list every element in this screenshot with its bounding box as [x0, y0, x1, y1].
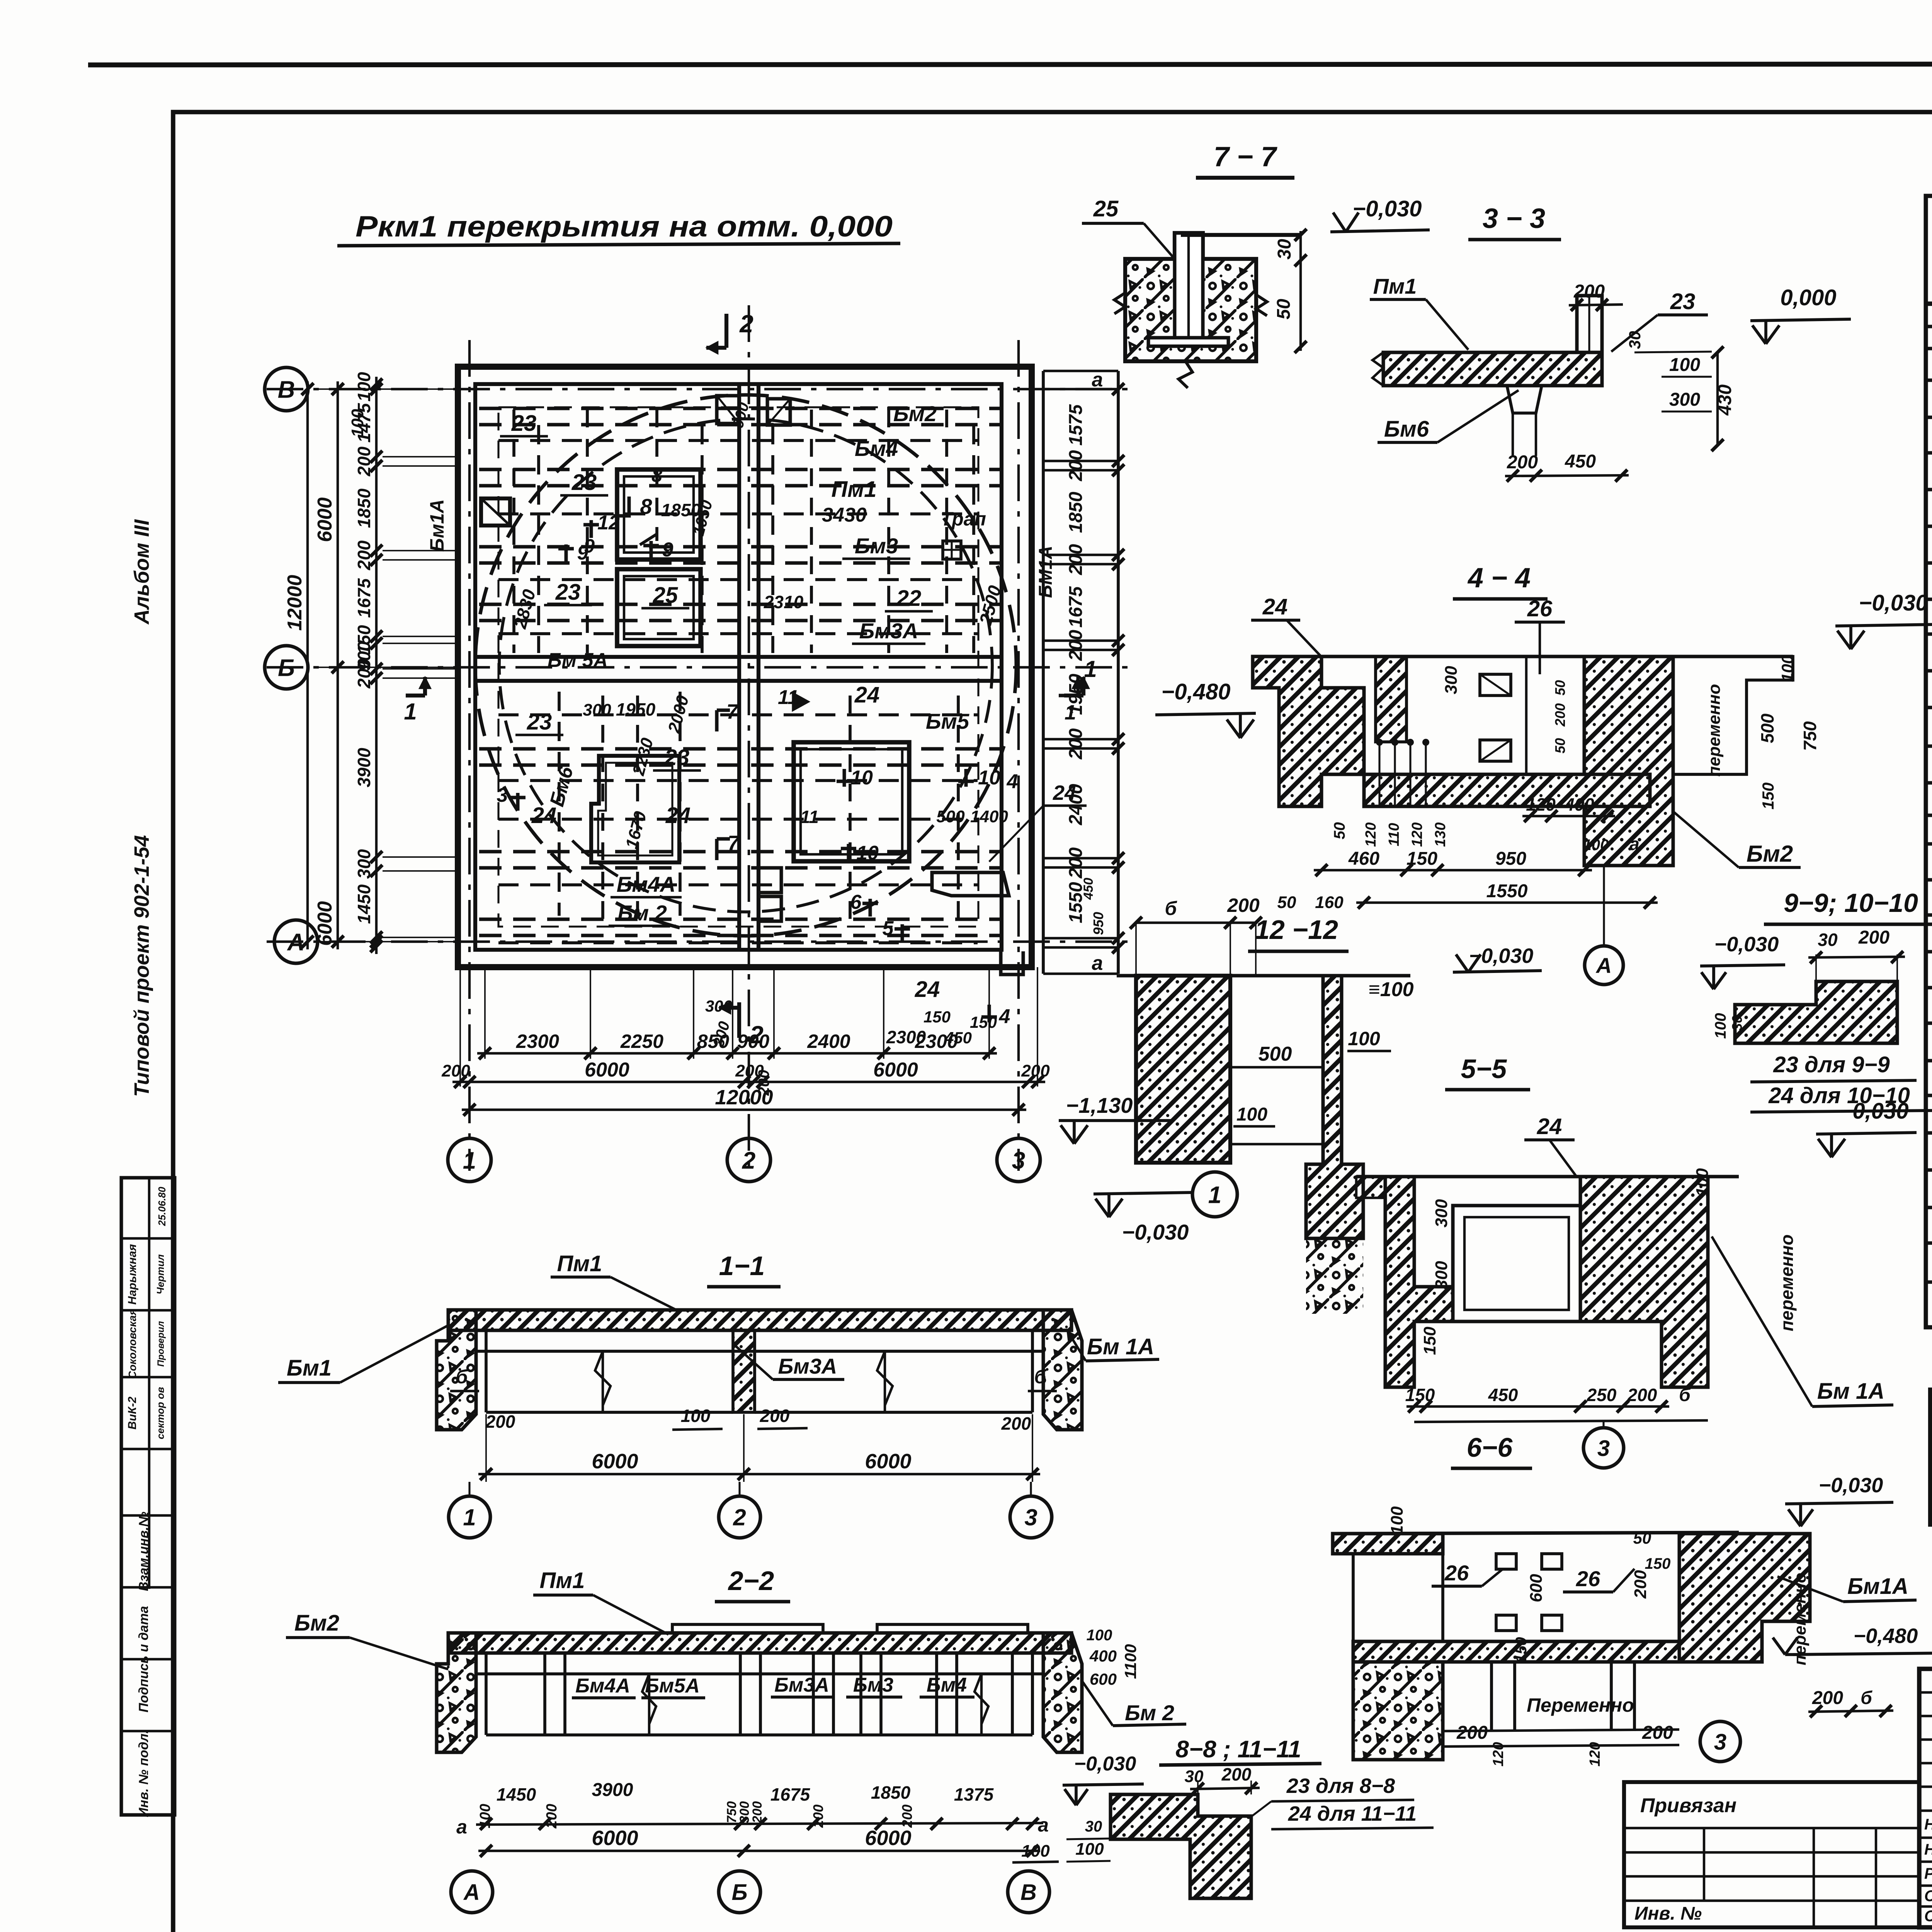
svg-text:Проверил: Проверил: [156, 1321, 166, 1367]
section 5-5 top strip: [1356, 1177, 1385, 1198]
svg-text:Пм1: Пм1: [557, 1251, 602, 1276]
section 7-7 anchor plate: [1148, 338, 1228, 346]
axis circle А: [274, 920, 318, 963]
svg-text:200: 200: [1227, 895, 1260, 916]
plan wall at axis 2: [737, 384, 741, 950]
svg-text:100: 100: [1583, 837, 1609, 854]
svg-text:Бм 2: Бм 2: [617, 901, 667, 925]
section 7-7 top line: [1181, 233, 1301, 237]
svg-text:переменно: переменно: [1777, 1235, 1797, 1332]
svg-text:1: 1: [463, 1505, 476, 1531]
svg-text:30: 30: [1818, 930, 1838, 950]
section 7-7 break marks: [1114, 293, 1125, 314]
section 4-4 level -0030: [1835, 624, 1932, 626]
svg-text:460: 460: [1348, 849, 1379, 869]
section mark 4 bottom: [981, 1005, 997, 1022]
section 2-2 left end block: [437, 1633, 476, 1752]
svg-text:110: 110: [1386, 823, 1402, 847]
svg-text:200: 200: [1858, 927, 1889, 948]
axis circle 1 section 12-12: [1192, 1172, 1237, 1217]
plan perimeter dashed rect: [498, 407, 978, 927]
svg-text:Б: Б: [731, 1880, 747, 1905]
section 12-12 right wall hatched: [1306, 976, 1363, 1238]
svg-text:Инв. № подл.: Инв. № подл.: [136, 1730, 151, 1817]
SW L-shaped opening: [591, 756, 679, 862]
svg-text:12000: 12000: [284, 575, 306, 631]
svg-text:30: 30: [1185, 1767, 1204, 1786]
section 4-4 small hatched strip top: [1376, 656, 1406, 742]
section marks 5 6: [895, 924, 910, 942]
svg-text:1400: 1400: [970, 807, 1008, 826]
svg-text:250: 250: [1587, 1385, 1617, 1405]
svg-text:Пм1: Пм1: [540, 1568, 585, 1593]
svg-text:23: 23: [527, 709, 552, 735]
svg-text:1575: 1575: [1066, 404, 1086, 446]
svg-text:100: 100: [1348, 1028, 1380, 1049]
section 7-7 anchor channel: [1175, 233, 1203, 338]
svg-text:Соколовская: Соколовская: [126, 1309, 138, 1379]
svg-text:22: 22: [896, 586, 922, 611]
svg-text:200: 200: [1221, 1764, 1252, 1784]
svg-text:1675: 1675: [770, 1784, 811, 1804]
svg-text:30: 30: [1274, 239, 1295, 260]
svg-text:−0,480: −0,480: [1161, 679, 1230, 704]
svg-text:200: 200: [1627, 1385, 1657, 1405]
svg-text:100: 100: [1021, 1842, 1050, 1861]
section 1-1 left end block: [437, 1310, 476, 1430]
svg-text:200: 200: [1456, 1723, 1488, 1743]
section 3-3 post: [1577, 296, 1602, 352]
section 12-12 pier hatched: [1136, 976, 1230, 1163]
section 1-1 right end block: [1043, 1310, 1082, 1430]
plan left dim chain 12000: [306, 381, 309, 949]
svg-text:6000: 6000: [873, 1059, 918, 1081]
svg-text:Инв. №: Инв. №: [1634, 1903, 1702, 1924]
svg-text:100: 100: [1669, 355, 1700, 375]
svg-text:150: 150: [1513, 1637, 1530, 1663]
sheet top edge line: [88, 64, 1932, 65]
svg-text:2−2: 2−2: [728, 1566, 774, 1596]
svg-text:8−8 ; 11−11: 8−8 ; 11−11: [1175, 1736, 1301, 1763]
axis circles А Б В below section 2-2: [451, 1871, 493, 1913]
svg-text:Бм1А: Бм1А: [1847, 1574, 1908, 1599]
svg-text:500: 500: [1757, 713, 1777, 743]
axis line В: [267, 388, 1132, 390]
section 8-8 level: [1063, 1784, 1144, 1785]
svg-text:А: А: [287, 929, 305, 956]
axis line 2: [748, 305, 750, 1171]
svg-text:9: 9: [662, 539, 673, 561]
svg-text:130: 130: [1432, 822, 1449, 847]
section 2-2 right end block: [1043, 1633, 1082, 1752]
svg-text:6−6: 6−6: [1467, 1432, 1513, 1463]
svg-text:а: а: [1092, 369, 1103, 391]
axis circle В: [265, 367, 308, 411]
svg-text:Ст.инж: Ст.инж: [1924, 1888, 1932, 1905]
section marks 7: [715, 710, 719, 731]
svg-text:А: А: [463, 1880, 480, 1905]
privyazan columns: [1703, 1828, 1705, 1901]
svg-text:12 −12: 12 −12: [1255, 915, 1338, 945]
svg-text:30: 30: [1729, 1015, 1745, 1031]
section 2-2 dim 6000s: [478, 1850, 1040, 1852]
section 1-1 center support: [733, 1330, 755, 1412]
svg-text:25: 25: [653, 583, 678, 608]
svg-text:1850: 1850: [354, 488, 374, 528]
svg-text:Бм3А: Бм3А: [778, 1354, 837, 1378]
svg-text:1850: 1850: [1066, 492, 1086, 533]
svg-text:−0,480: −0,480: [1854, 1624, 1918, 1648]
section 2-2 joists: [543, 1653, 546, 1735]
section 4-4 level -0480: [1155, 713, 1256, 715]
section mark 2 bottom: [737, 1002, 741, 1038]
size table diagonal: [1930, 1389, 1932, 1424]
svg-text:300: 300: [1442, 666, 1461, 694]
svg-text:Бм 1А: Бм 1А: [1817, 1379, 1884, 1404]
svg-text:3: 3: [1024, 1505, 1037, 1531]
svg-text:а: а: [1092, 952, 1103, 975]
svg-text:200: 200: [1001, 1413, 1031, 1434]
svg-text:а: а: [456, 1816, 467, 1838]
svg-text:−0,030: −0,030: [1714, 933, 1779, 956]
svg-text:Бм1: Бм1: [287, 1355, 332, 1381]
section mark 2 top: [724, 314, 728, 348]
svg-text:Пм1: Пм1: [1373, 274, 1417, 298]
svg-text:23: 23: [571, 470, 597, 495]
svg-text:3900: 3900: [592, 1780, 633, 1800]
svg-text:А: А: [1595, 953, 1612, 978]
section 9-9 shape: [1735, 981, 1897, 1043]
svg-text:6000: 6000: [314, 497, 336, 542]
section marks 1 left right: [406, 694, 425, 697]
svg-text:Бм 5А: Бм 5А: [548, 649, 608, 672]
svg-text:Бм4: Бм4: [927, 1674, 967, 1696]
section 6-6 level -0,480: [1793, 1653, 1932, 1655]
svg-text:Бм3: Бм3: [855, 534, 898, 558]
svg-text:24: 24: [665, 803, 691, 828]
svg-text:Бм2: Бм2: [1747, 841, 1793, 867]
section 6-6 lower left concrete: [1353, 1662, 1443, 1760]
svg-text:Бм6: Бм6: [1384, 417, 1429, 442]
section mark 3: [510, 793, 526, 811]
axis line 3: [1017, 340, 1020, 1171]
svg-text:6000: 6000: [585, 1059, 629, 1081]
plan extra dashed verticals: [512, 410, 515, 653]
section 2-2 slab band: [448, 1633, 1071, 1653]
svg-text:б: б: [1861, 1688, 1872, 1708]
svg-text:6000: 6000: [592, 1450, 638, 1473]
svg-text:200: 200: [354, 446, 374, 476]
svg-text:900: 900: [737, 1031, 770, 1052]
svg-text:−0,030: −0,030: [1352, 196, 1422, 221]
privyazan rows: [1624, 1827, 1919, 1829]
plan dashed circle inner: [499, 419, 992, 912]
svg-text:24: 24: [1262, 594, 1288, 619]
svg-text:200: 200: [1631, 1570, 1650, 1599]
svg-text:7: 7: [726, 700, 739, 723]
svg-text:2310: 2310: [764, 592, 804, 612]
svg-text:600: 600: [1090, 1670, 1117, 1688]
svg-text:3: 3: [1714, 1730, 1726, 1755]
svg-text:2: 2: [739, 310, 753, 338]
section 5-5 level: [1816, 1133, 1917, 1134]
section marks 10: [837, 769, 852, 787]
svg-text:переменно: переменно: [1791, 1573, 1810, 1665]
section 6-6 anchors: [1496, 1554, 1516, 1569]
section 4-4 stirrups: [1480, 674, 1511, 696]
svg-text:450: 450: [1081, 878, 1096, 900]
svg-text:ВиК-2: ВиК-2: [126, 1396, 139, 1429]
svg-text:50: 50: [1633, 1529, 1651, 1547]
section 4-4 mid slab hatched: [1364, 774, 1650, 806]
svg-text:100: 100: [1778, 655, 1796, 682]
axis line А: [267, 940, 1132, 943]
svg-text:1550: 1550: [1486, 881, 1528, 901]
title block frame: [1919, 1669, 1932, 1927]
svg-text:200: 200: [1066, 630, 1086, 661]
axis circle 3 section 5-5: [1583, 1428, 1624, 1468]
svg-text:300: 300: [705, 997, 732, 1015]
svg-text:150: 150: [923, 1008, 951, 1026]
small bottom right hook: [1001, 951, 1023, 975]
section 5-5 left wall hatch: [1385, 1177, 1453, 1387]
svg-text:1100: 1100: [1121, 1644, 1139, 1679]
opening O1 1850: [617, 469, 701, 560]
svg-text:1675: 1675: [1066, 586, 1086, 628]
svg-text:150: 150: [970, 1013, 997, 1031]
svg-text:Пм1: Пм1: [832, 477, 877, 502]
svg-text:26: 26: [1527, 596, 1553, 621]
svg-text:2250: 2250: [620, 1031, 663, 1052]
svg-text:Бм 1А: Бм 1А: [1087, 1334, 1154, 1359]
svg-text:БМ1А: БМ1А: [1036, 546, 1056, 598]
svg-text:5: 5: [883, 917, 894, 940]
plan dashed circle outer: [475, 395, 1016, 936]
axis circle A section 4-4: [1585, 946, 1623, 985]
axis circle 2: [727, 1138, 770, 1182]
section 9-9 level -0,030: [1700, 965, 1785, 966]
svg-text:12000: 12000: [715, 1086, 773, 1109]
section 6-6 right big hatch upper: [1679, 1534, 1810, 1662]
plan bottom dim chain row1: [477, 1052, 997, 1054]
plan dashed beam verticals: [537, 425, 540, 653]
svg-text:1675: 1675: [354, 578, 374, 618]
plan extension lines bottom: [484, 967, 486, 1059]
svg-text:50: 50: [1552, 680, 1568, 696]
axis circle Б: [265, 646, 308, 689]
svg-text:−0,030: −0,030: [1074, 1753, 1136, 1775]
axis line Б: [267, 666, 1132, 668]
svg-text:300: 300: [1669, 389, 1700, 410]
svg-text:200: 200: [1066, 544, 1086, 575]
level -0,030 above section 5-5: [1453, 971, 1542, 972]
svg-text:Бм1А: Бм1А: [426, 499, 448, 552]
svg-text:450: 450: [1488, 1385, 1518, 1405]
svg-text:2400: 2400: [807, 1031, 850, 1052]
svg-text:1−1: 1−1: [719, 1251, 765, 1281]
svg-text:150: 150: [1406, 849, 1437, 869]
svg-text:950: 950: [1090, 912, 1106, 935]
svg-text:30: 30: [1085, 1818, 1102, 1835]
svg-text:150: 150: [1645, 1555, 1671, 1572]
opening O3 with section 10 marks: [794, 742, 909, 861]
svg-text:500: 500: [936, 807, 965, 826]
svg-text:7: 7: [728, 832, 740, 855]
section 7-7 dim line: [1299, 231, 1302, 351]
svg-text:1375: 1375: [954, 1784, 994, 1804]
svg-text:6000: 6000: [865, 1827, 911, 1850]
svg-text:23: 23: [555, 580, 581, 605]
bottom small openings: [759, 868, 781, 893]
section 8-8 shape: [1111, 1794, 1251, 1898]
plan extra dashed lines lower: [498, 713, 978, 716]
svg-text:6000: 6000: [314, 901, 336, 946]
svg-text:Ркм1 перекрытия на отм. 0,000: Ркм1 перекрытия на отм. 0,000: [355, 210, 893, 243]
svg-text:300: 300: [354, 849, 374, 879]
svg-text:б: б: [1034, 1366, 1047, 1388]
svg-text:а: а: [1629, 834, 1639, 854]
svg-text:9−9; 10−10: 9−9; 10−10: [1784, 888, 1918, 918]
trap symbol: [943, 541, 961, 559]
svg-text:430: 430: [1715, 384, 1735, 416]
svg-text:Типовой проект 902-1-54: Типовой проект 902-1-54: [130, 835, 153, 1097]
svg-text:400: 400: [1089, 1647, 1117, 1665]
svg-text:Бм3А: Бм3А: [859, 619, 918, 643]
svg-text:Б: Б: [278, 655, 295, 681]
svg-text:400: 400: [1564, 794, 1594, 815]
svg-text:100: 100: [1388, 1506, 1406, 1535]
svg-text:10: 10: [978, 767, 1000, 789]
svg-text:3430: 3430: [822, 504, 867, 526]
svg-text:600: 600: [1527, 1574, 1546, 1602]
svg-text:Бм2: Бм2: [893, 401, 937, 426]
svg-text:−0,030: −0,030: [1839, 1099, 1908, 1124]
svg-text:Бм3: Бм3: [853, 1674, 893, 1696]
svg-text:50: 50: [1277, 893, 1296, 912]
svg-text:150: 150: [1420, 1327, 1439, 1355]
svg-text:Бм5А: Бм5А: [645, 1675, 700, 1697]
svg-text:23: 23: [511, 411, 537, 436]
svg-text:−0,030: −0,030: [1469, 944, 1534, 968]
svg-text:−1,130: −1,130: [1066, 1093, 1133, 1117]
svg-text:2: 2: [742, 1147, 755, 1174]
svg-text:1450: 1450: [497, 1784, 536, 1804]
svg-text:850: 850: [697, 1031, 730, 1052]
svg-text:30: 30: [1626, 331, 1644, 349]
svg-text:8: 8: [651, 464, 662, 486]
svg-text:200: 200: [1021, 1061, 1050, 1080]
axis circle 3 section 6-6: [1700, 1721, 1740, 1762]
svg-text:450: 450: [1565, 451, 1596, 472]
svg-text:26: 26: [1576, 1566, 1600, 1591]
svg-text:120: 120: [1409, 822, 1425, 847]
svg-text:24: 24: [915, 977, 940, 1002]
svg-text:50: 50: [1331, 822, 1348, 840]
svg-text:Трап: Трап: [940, 508, 986, 530]
svg-text:7 − 7: 7 − 7: [1214, 141, 1277, 172]
section 2-2 slab top humps: [672, 1624, 823, 1633]
section 3-3 slab: [1383, 352, 1602, 386]
section 4-4 right block hatched: [1584, 656, 1673, 866]
svg-text:4 − 4: 4 − 4: [1467, 563, 1531, 594]
svg-text:200: 200: [1642, 1723, 1673, 1743]
svg-text:100: 100: [354, 372, 374, 401]
svg-text:Взам.инв.№: Взам.инв.№: [136, 1512, 151, 1591]
section 6-6 level -0,030 top right: [1785, 1502, 1893, 1504]
svg-text:−0,030: −0,030: [1819, 1474, 1883, 1497]
section 5-5 inner box: [1453, 1206, 1580, 1321]
svg-text:Привязан: Привязан: [1640, 1794, 1736, 1817]
svg-text:б: б: [456, 1366, 469, 1388]
svg-text:11: 11: [778, 686, 799, 709]
size table frame: [1930, 1389, 1932, 1525]
svg-text:Бм4А: Бм4А: [617, 872, 676, 896]
svg-text:200: 200: [354, 540, 374, 570]
svg-text:сектор ов: сектор ов: [155, 1387, 166, 1439]
small wall square with cross: [481, 498, 510, 526]
svg-text:100: 100: [1236, 1104, 1267, 1125]
svg-text:200: 200: [1066, 450, 1086, 481]
section 7-7 level -0,030: [1330, 230, 1430, 232]
section 5-5 right big hatch: [1580, 1177, 1708, 1387]
section 5-5 top slab line: [1356, 1175, 1739, 1179]
section mark 11: [793, 693, 808, 710]
small top squares: [717, 396, 739, 423]
svg-text:3: 3: [1597, 1436, 1610, 1461]
svg-text:−0,030: −0,030: [1122, 1220, 1189, 1244]
svg-text:Бм5: Бм5: [926, 709, 969, 733]
svg-text:1950: 1950: [616, 699, 656, 719]
svg-text:1: 1: [1065, 701, 1076, 724]
svg-text:200: 200: [1552, 703, 1568, 727]
svg-text:12: 12: [597, 512, 620, 534]
section 3-3 dim 200 top: [1569, 304, 1623, 305]
svg-text:9: 9: [584, 535, 595, 557]
plan right dim ladder: [1042, 371, 1045, 974]
section 2-2 break marks: [642, 1674, 656, 1735]
section 1-1 dim 6000s: [478, 1473, 1040, 1475]
svg-text:В: В: [1020, 1880, 1037, 1905]
svg-text:−0,030: −0,030: [1859, 590, 1928, 616]
left stamp table: [121, 1178, 175, 1815]
axis line 1: [468, 340, 471, 1171]
section 3-3 left break: [1372, 352, 1383, 386]
svg-text:переменно: переменно: [1705, 684, 1724, 777]
svg-text:Бм4: Бм4: [855, 436, 898, 461]
spec table header row line: [1926, 301, 1932, 306]
svg-text:10: 10: [850, 767, 873, 789]
plan extra dashed lines upper: [498, 439, 978, 442]
plan bottom dim 12000: [462, 1109, 1026, 1111]
svg-text:Чертил: Чертил: [155, 1254, 166, 1294]
section 12-12 lower block: [1306, 1238, 1363, 1314]
svg-text:100: 100: [1712, 1013, 1729, 1039]
svg-text:6000: 6000: [592, 1827, 638, 1850]
svg-text:Переменно: Переменно: [1527, 1694, 1634, 1716]
plan extension lines left: [383, 456, 458, 457]
section 6-6 left wall lines: [1352, 1554, 1355, 1641]
svg-text:2: 2: [733, 1505, 746, 1531]
svg-text:50: 50: [1552, 738, 1568, 753]
svg-text:23 для 8−8: 23 для 8−8: [1286, 1774, 1395, 1798]
privyazan box: [1624, 1782, 1919, 1927]
svg-text:100: 100: [1087, 1627, 1112, 1644]
plan outer walls: [458, 367, 1032, 967]
title block left rows: [1919, 1691, 1932, 1694]
svg-text:50: 50: [1274, 299, 1294, 320]
svg-text:3: 3: [497, 784, 508, 806]
section mark 8 pair: [614, 497, 629, 516]
